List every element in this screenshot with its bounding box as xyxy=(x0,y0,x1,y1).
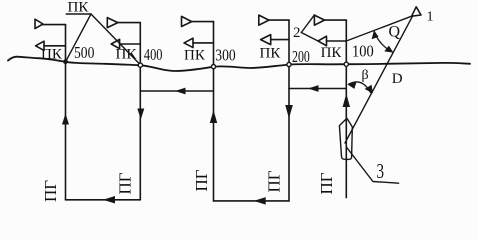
svg-text:100: 100 xyxy=(352,42,374,60)
svg-text:500: 500 xyxy=(74,43,95,62)
svg-text:D: D xyxy=(392,71,403,87)
svg-text:ПК: ПК xyxy=(41,47,63,63)
svg-text:ПК: ПК xyxy=(260,46,282,62)
svg-text:ПГ: ПГ xyxy=(116,172,135,194)
svg-text:ПГ: ПГ xyxy=(41,180,60,202)
svg-text:β: β xyxy=(362,68,369,83)
svg-text:ПК: ПК xyxy=(116,47,138,63)
svg-text:ПК: ПК xyxy=(184,47,206,63)
svg-text:ПГ: ПГ xyxy=(192,169,211,191)
svg-text:3: 3 xyxy=(377,160,385,183)
svg-text:1: 1 xyxy=(427,10,434,25)
svg-text:400: 400 xyxy=(144,46,163,64)
svg-text:ПК: ПК xyxy=(321,45,343,61)
svg-text:200: 200 xyxy=(292,48,310,67)
svg-text:ПГ: ПГ xyxy=(265,170,284,192)
svg-text:Q: Q xyxy=(389,24,401,41)
svg-text:ПК: ПК xyxy=(68,0,90,15)
svg-text:ПГ: ПГ xyxy=(317,172,336,194)
svg-text:300: 300 xyxy=(215,46,236,65)
svg-text:2: 2 xyxy=(293,25,301,41)
